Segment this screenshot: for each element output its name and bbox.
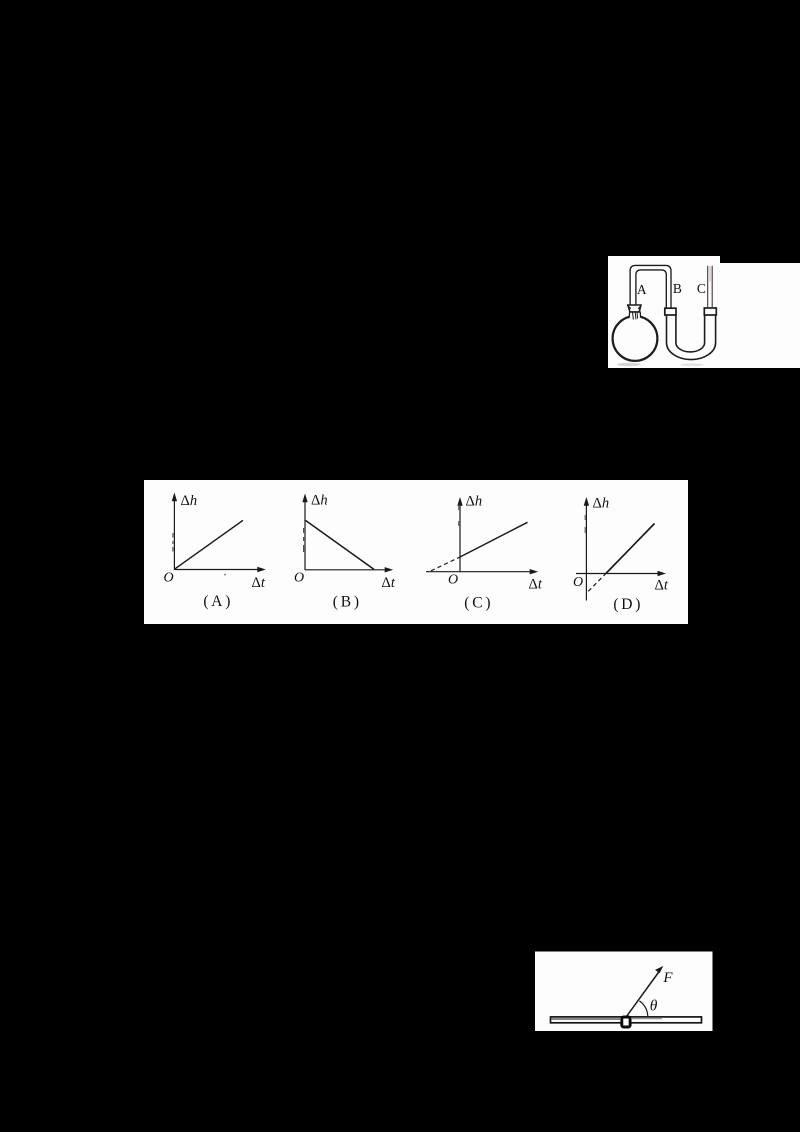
force arrowhead — [655, 966, 663, 973]
tube C walls — [708, 266, 713, 308]
svg-text:O: O — [573, 575, 583, 590]
flask bulb — [613, 316, 658, 361]
svg-text:C: C — [697, 281, 706, 296]
collar joint C — [704, 308, 716, 315]
tube A wall left — [630, 265, 671, 308]
svg-text:(B): (B) — [333, 594, 362, 611]
rod top shading left — [552, 1018, 621, 1020]
graph D dashed line — [588, 573, 606, 591]
svg-text:O: O — [294, 571, 304, 586]
rod top shading right — [632, 1018, 662, 1020]
graph A line — [175, 520, 243, 569]
graph D y-arrowhead — [584, 497, 589, 506]
svg-text:θ: θ — [650, 997, 658, 1014]
graph B axis scan dashes — [303, 528, 305, 552]
U-tube shadow smudge — [680, 363, 704, 366]
svg-text:Δh: Δh — [593, 496, 610, 512]
svg-text:(A): (A) — [203, 593, 233, 610]
graph C y-arrowhead — [457, 497, 462, 506]
graph D axis scan dashes — [584, 515, 586, 533]
force arrow line — [627, 970, 661, 1017]
graph B x-arrowhead — [385, 567, 394, 572]
white panel of graphs strip — [144, 480, 688, 624]
graph B line — [306, 520, 375, 569]
svg-text:B: B — [673, 281, 682, 296]
svg-text:(C): (C) — [464, 595, 493, 612]
graph C x-axis — [426, 571, 535, 573]
svg-text:Δt: Δt — [382, 575, 396, 591]
svg-text:O: O — [448, 573, 458, 588]
graph A x-axis — [174, 569, 259, 571]
neck white mask — [629, 312, 641, 318]
graph C axis scan dashes — [458, 506, 460, 526]
graph A axis speck — [224, 574, 226, 576]
collar joint B — [665, 308, 676, 315]
svg-text:Δh: Δh — [466, 494, 483, 510]
graph B x-axis — [305, 569, 387, 571]
graph D y-axis — [585, 501, 587, 601]
svg-text:Δh: Δh — [311, 493, 328, 509]
stopper corner accents — [628, 306, 641, 309]
svg-text:(D): (D) — [613, 596, 643, 613]
flask shadow smudge — [617, 363, 641, 367]
graph D x-arrowhead — [658, 571, 667, 576]
svg-text:Δt: Δt — [655, 578, 669, 594]
graph B y-arrowhead — [302, 494, 307, 503]
rod — [551, 1017, 702, 1023]
slider bead on rod — [622, 1017, 630, 1027]
graph A x-arrowhead — [257, 567, 266, 572]
svg-text:Δh: Δh — [181, 493, 198, 509]
white panel of apparatus figure — [608, 256, 800, 368]
svg-text:Δt: Δt — [252, 575, 266, 591]
angle arc — [639, 1001, 647, 1016]
tube A wall right / bend inner — [636, 270, 666, 309]
graph D line — [606, 524, 655, 574]
graph C x-arrowhead — [530, 569, 539, 574]
graph B y-axis — [304, 500, 306, 570]
graph C y-axis — [459, 501, 461, 573]
svg-text:O: O — [164, 571, 174, 586]
svg-text:F: F — [662, 970, 673, 986]
tube C red liquid tint — [709, 267, 711, 282]
U-tube outer wall — [667, 315, 716, 360]
graph A y-arrowhead — [172, 493, 177, 502]
svg-text:Δt: Δt — [529, 577, 543, 593]
white panel of rod figure — [535, 952, 713, 1032]
flask stopper — [628, 305, 641, 312]
graph D x-axis — [576, 573, 662, 575]
flask neck walls — [629, 312, 640, 317]
svg-text:A: A — [637, 282, 647, 297]
tube through stopper into flask — [633, 312, 638, 319]
graph C line — [460, 522, 528, 557]
graph A y-axis — [173, 499, 175, 570]
U-tube inner wall — [676, 315, 705, 352]
graph A axis scan dashes — [172, 533, 174, 552]
graph C dashed line — [431, 557, 460, 571]
